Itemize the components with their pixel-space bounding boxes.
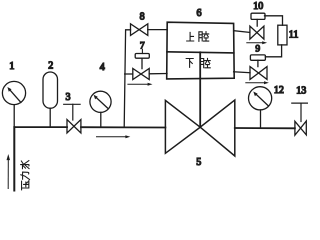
valve 8 <box>131 24 148 36</box>
wire feed pipe vertical <box>13 127 15 190</box>
svg-text:12: 12 <box>274 85 284 96</box>
valve 7 (actuated) <box>133 49 150 79</box>
valve 9 (actuated) <box>250 55 267 80</box>
wire cylinder 11 to actuator 9 <box>265 45 281 57</box>
svg-text:4: 4 <box>100 62 105 73</box>
svg-text:13: 13 <box>296 85 306 96</box>
svg-text:6: 6 <box>197 8 202 19</box>
main valve 5 <box>165 100 234 156</box>
svg-text:3: 3 <box>66 92 71 103</box>
pressure gauge 4 <box>90 91 111 127</box>
flow arrow under valve 9 <box>246 81 269 84</box>
label 压力水 <box>21 161 30 190</box>
pressure gauge 12 <box>249 87 272 128</box>
svg-text:5: 5 <box>196 157 201 168</box>
label 下腔 <box>186 58 210 68</box>
svg-text:1: 1 <box>9 61 14 72</box>
wire valve7 to box <box>149 73 167 75</box>
accumulator vessel 2 <box>43 72 58 127</box>
cylinder 11 <box>278 25 287 45</box>
wire main pipe left segment <box>15 126 68 128</box>
wire branch riser <box>124 30 130 128</box>
flow arrow on main pipe <box>97 135 131 138</box>
flow arrow under valve 10 <box>247 41 267 44</box>
flow arrow feed (up) <box>7 154 11 189</box>
pressure gauge 1 <box>2 81 25 127</box>
wire valve8 to box <box>148 29 167 31</box>
svg-text:8: 8 <box>140 12 145 23</box>
wire main pipe right segment <box>235 127 295 129</box>
valve 3 <box>64 104 81 133</box>
wire box to valve 9 <box>234 71 250 74</box>
label 上腔 <box>187 32 209 42</box>
flow arrow under valve 7 <box>128 83 153 86</box>
svg-text:10: 10 <box>253 1 263 12</box>
wire main pipe middle segment <box>81 126 165 128</box>
svg-text:9: 9 <box>255 44 260 54</box>
valve 13 <box>292 103 308 135</box>
valve 10 (actuated) <box>250 13 265 39</box>
wire actuator10 to cylinder 11 <box>265 16 283 25</box>
svg-text:11: 11 <box>289 29 299 40</box>
servomotor box 6 <box>167 22 235 127</box>
wire box to valve 10 <box>234 31 250 33</box>
svg-text:2: 2 <box>48 61 53 72</box>
wire branch to valve7 <box>125 73 133 75</box>
svg-text:7: 7 <box>140 42 145 52</box>
